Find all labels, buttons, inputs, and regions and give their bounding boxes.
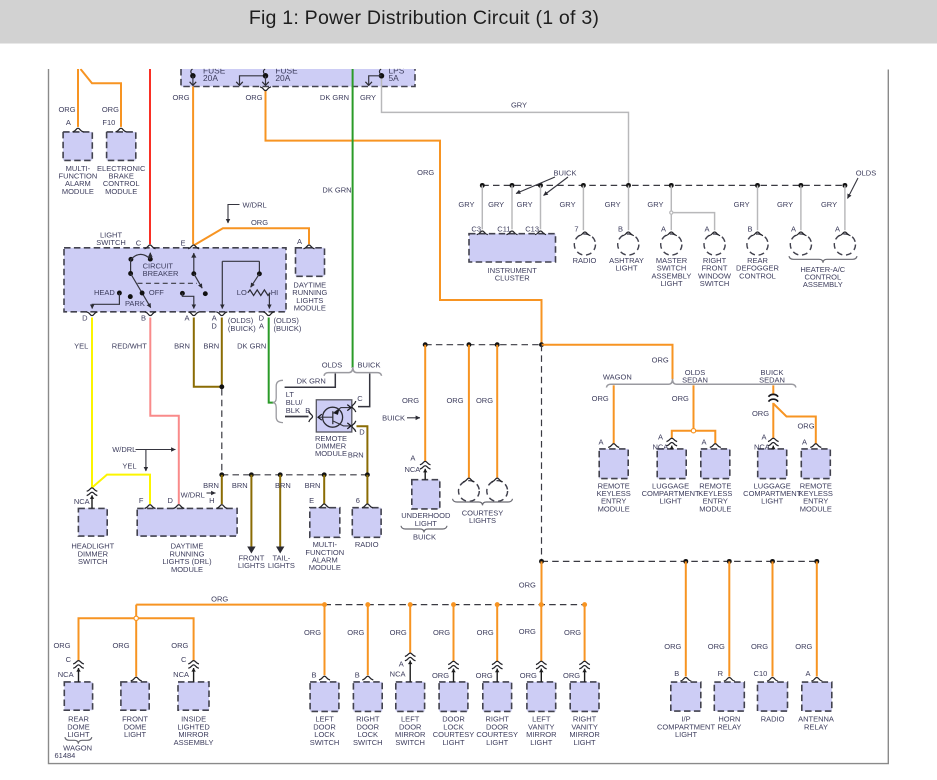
svg-text:D: D <box>167 496 173 505</box>
svg-text:ORG: ORG <box>446 396 463 405</box>
svg-text:CONTROL: CONTROL <box>739 271 776 280</box>
light switch contact dot OFF <box>140 291 145 296</box>
light switch circuit breaker <box>128 257 133 262</box>
svg-text:BREAKER: BREAKER <box>143 269 179 278</box>
svg-text:D: D <box>82 314 88 323</box>
svg-text:NCA: NCA <box>173 670 189 679</box>
svg-text:C3: C3 <box>471 224 481 233</box>
svg-text:6: 6 <box>356 496 360 505</box>
wire ORG to rear dome light <box>79 618 135 660</box>
wire RED/WHT light switch pin B to DRL module pin D <box>150 318 179 505</box>
daytime running lights module box (upper) <box>296 248 325 276</box>
light switch internal divider dashed <box>138 282 198 284</box>
svg-text:R: R <box>718 669 724 678</box>
svg-text:A: A <box>701 437 706 446</box>
antenna relay box <box>802 682 832 711</box>
wire ORG fuse 2 to junction at orange bus <box>266 91 542 345</box>
left door lock switch box <box>310 682 339 712</box>
remote dimmer module box <box>316 400 352 432</box>
BRN bus junction dots <box>219 472 224 477</box>
underhood light brace <box>401 526 447 533</box>
master switch assembly light circle <box>661 234 682 255</box>
svg-text:MODULE: MODULE <box>315 449 347 458</box>
DRL module pin H connector <box>216 505 227 509</box>
electronic brake control module box <box>107 132 136 161</box>
wire ORG break to remote keyless entry module (buick) <box>773 404 815 445</box>
svg-text:BRN: BRN <box>305 481 321 490</box>
svg-text:MODULE: MODULE <box>105 187 137 196</box>
svg-text:ORG: ORG <box>390 628 407 637</box>
junction dot BRN wires <box>219 384 224 389</box>
courtesy light 1 circle <box>459 481 480 502</box>
wire ORG to i/p compartment light <box>685 561 687 676</box>
DRL module pin F connector <box>145 505 156 509</box>
svg-text:B: B <box>674 669 679 678</box>
front dome light connector <box>131 677 142 681</box>
svg-text:RADIO: RADIO <box>761 715 785 724</box>
svg-text:A: A <box>802 437 807 446</box>
svg-text:MODULE: MODULE <box>294 304 326 313</box>
svg-text:GRY: GRY <box>511 100 527 109</box>
wire ORG olds junction to remote keyless entry module <box>696 431 716 444</box>
underhood light box <box>412 480 440 509</box>
svg-text:ORG: ORG <box>751 642 768 651</box>
svg-text:ORG: ORG <box>53 641 70 650</box>
svg-text:LIGHTS: LIGHTS <box>238 561 265 570</box>
svg-text:BRN: BRN <box>348 451 364 460</box>
fuse 3 LPS 5A symbol <box>379 73 385 79</box>
wire ORG brace to buick sedan break connector <box>772 385 774 393</box>
inside lighted mirror assembly box <box>178 682 209 710</box>
DRL module pin A connector (upper) <box>304 245 315 249</box>
svg-text:ORG: ORG <box>519 581 536 590</box>
light switch middle switch (pin E to pin A) <box>193 253 195 274</box>
svg-text:LIGHT: LIGHT <box>761 497 784 506</box>
wire GRY to heater-a/c control assembly pin A (right) <box>844 185 846 230</box>
svg-text:DK GRN: DK GRN <box>237 342 266 351</box>
remote dimmer pin B arrow chevron <box>318 414 322 420</box>
wire DK GRN light switch pin D/A to options brace <box>269 318 274 403</box>
svg-text:A: A <box>761 433 766 442</box>
horn relay box <box>714 682 744 711</box>
annotation BUICK arrow at underhood wire <box>407 417 420 419</box>
light switch pin E connector <box>188 245 199 249</box>
svg-text:E: E <box>180 239 185 248</box>
svg-text:MODULE: MODULE <box>598 504 630 513</box>
light switch wire HEAD contact to pin D <box>92 293 119 309</box>
svg-text:RED/WHT: RED/WHT <box>112 342 147 351</box>
wire YEL branch to DRL module pin F <box>92 475 150 505</box>
left door mirror switch connector NCA <box>405 653 416 656</box>
svg-text:ORG: ORG <box>708 642 725 651</box>
svg-text:LIGHTS: LIGHTS <box>268 561 295 570</box>
wire ORG to underhood light <box>424 345 426 462</box>
wire DK GRN option to OLDS side of dimmer brace <box>285 374 336 388</box>
wire ORG to door lock courtesy light <box>453 605 455 662</box>
svg-text:W/DRL: W/DRL <box>181 490 205 499</box>
wire ORG to right door courtesy light <box>496 605 498 662</box>
wire ORG to horn relay <box>728 561 730 676</box>
svg-text:NCA: NCA <box>390 670 406 679</box>
right front window switch circle <box>704 234 725 255</box>
svg-text:A: A <box>297 237 302 246</box>
DRL module pin D connector <box>173 505 184 509</box>
svg-text:ORG: ORG <box>245 93 262 102</box>
radio pin 6 connector <box>362 504 373 508</box>
wagon brace under rear dome light <box>65 737 92 744</box>
svg-text:BRN: BRN <box>203 342 219 351</box>
svg-text:CLUSTER: CLUSTER <box>495 274 531 283</box>
svg-text:B: B <box>141 314 146 323</box>
fuse block box (top, clipped) <box>181 69 415 87</box>
wire ORG to right vanity mirror light <box>584 605 586 662</box>
wire ORG to right door lock switch <box>367 605 369 676</box>
luggage compartment light (olds) connector NCA <box>667 438 678 441</box>
wire ORG light switch pin E to DRL module pin A <box>194 228 309 245</box>
wire BRN bus to radio pin 6 <box>366 475 368 504</box>
wire YEL light switch pin D to headlight dimmer switch <box>91 318 93 488</box>
annotation W/DRL (at DRL pin H) <box>207 492 216 494</box>
junction ring dome lights <box>134 616 138 620</box>
remote dimmer pin B connector <box>309 411 313 422</box>
svg-text:H: H <box>209 496 214 505</box>
wire ORG break to luggage compartment light (buick) <box>772 403 774 439</box>
annotation OLDS with arrow (GRY bus) <box>848 178 859 199</box>
buick sedan inline break connector <box>769 394 779 401</box>
svg-text:LIGHT: LIGHT <box>660 279 683 288</box>
svg-text:BLK: BLK <box>286 406 300 415</box>
svg-text:A: A <box>410 453 415 462</box>
underhood light connector NCA <box>420 461 431 464</box>
svg-text:ORG: ORG <box>476 396 493 405</box>
wire GRY to master switch assembly light pin A <box>670 185 672 230</box>
wire ORG to courtesy light 2 <box>496 345 498 478</box>
door lock courtesy light connector NCA <box>448 661 459 664</box>
svg-text:A: A <box>399 659 404 668</box>
remote dimmer transistor symbol <box>323 407 343 427</box>
svg-text:SWITCH: SWITCH <box>700 279 730 288</box>
svg-text:GRY: GRY <box>647 200 663 209</box>
wire ORG to left door mirror switch <box>409 605 411 654</box>
ashtray light circle <box>618 234 639 255</box>
svg-text:ORG: ORG <box>652 356 669 365</box>
svg-text:MODULE: MODULE <box>699 504 731 513</box>
svg-text:ORG: ORG <box>251 218 268 227</box>
wire ORG olds junction to luggage compartment light <box>672 431 692 439</box>
svg-text:A: A <box>66 118 71 127</box>
remote keyless entry module (olds) pin A connector <box>710 444 721 448</box>
svg-text:A: A <box>259 322 264 331</box>
wire ORG fuse 1 to light switch pin E <box>192 87 194 245</box>
remote dimmer pin D connector <box>352 421 356 432</box>
svg-text:DK GRN: DK GRN <box>297 376 326 385</box>
wire BRN remote dimmer pin D to BRN bus <box>357 426 368 475</box>
svg-text:BUICK: BUICK <box>358 361 381 370</box>
wire ORG brace to remote keyless entry module (wagon) <box>613 385 615 444</box>
wire ORG to left door lock switch <box>324 605 326 676</box>
right vanity mirror light connector NCA <box>579 661 590 664</box>
svg-text:20A: 20A <box>203 73 218 83</box>
i/p compartment light box <box>671 682 701 711</box>
svg-text:C10: C10 <box>754 669 768 678</box>
annotation W/DRL (middle) <box>136 449 176 451</box>
svg-text:A: A <box>598 437 603 446</box>
fuse1-fuse2 link wire <box>240 76 266 85</box>
headlight dimmer switch connector NCA <box>87 488 98 491</box>
svg-text:ORG: ORG <box>402 396 419 405</box>
remote keyless entry module box (buick sedan) <box>801 449 830 479</box>
svg-text:7: 7 <box>574 224 578 233</box>
light switch pin C connector <box>145 245 156 249</box>
svg-text:ORG: ORG <box>797 422 814 431</box>
svg-text:PARK: PARK <box>125 299 145 308</box>
luggage compartment light (buick) connector NCA <box>768 438 779 441</box>
radio circle <box>574 234 595 255</box>
svg-text:W/DRL: W/DRL <box>112 445 136 454</box>
ORG bus 2 dashed <box>325 604 585 606</box>
wire GRY to instrument cluster C11 <box>511 185 513 229</box>
instrument cluster box <box>469 234 556 262</box>
wire ORG bus1 to wagon/sedan options brace <box>542 345 673 379</box>
left door mirror switch box <box>396 682 425 712</box>
svg-text:NCA: NCA <box>404 465 420 474</box>
svg-text:C11: C11 <box>497 224 510 233</box>
svg-text:C13: C13 <box>525 224 539 233</box>
svg-text:ORG: ORG <box>520 671 537 680</box>
fuse 2 output connector cup <box>260 87 271 91</box>
svg-text:Fig 1: Power Distribution Circ: Fig 1: Power Distribution Circuit (1 of … <box>249 7 599 29</box>
junction ring on master switch wire <box>670 211 673 214</box>
rear dome light connector NCA <box>73 661 84 664</box>
wire GRY from LPS fuse to GRY bus <box>382 77 629 185</box>
ORG bus 1 dots <box>423 342 428 347</box>
svg-text:ASSEMBLY: ASSEMBLY <box>174 738 214 747</box>
svg-text:A: A <box>835 224 840 233</box>
heater-a/c brace <box>789 256 857 263</box>
svg-text:LIGHT: LIGHT <box>67 730 90 739</box>
svg-text:BRN: BRN <box>232 481 248 490</box>
wire ORG to left vanity mirror light <box>540 605 542 662</box>
svg-text:A: A <box>704 224 709 233</box>
svg-text:NCA: NCA <box>58 670 74 679</box>
light switch head/off/park switch blade <box>130 259 132 273</box>
wire GRY to ashtray light pin B <box>628 185 630 230</box>
remote dimmer pin C connector <box>352 401 356 412</box>
svg-text:LIGHT: LIGHT <box>124 730 147 739</box>
svg-text:(BUICK): (BUICK) <box>228 324 256 333</box>
svg-text:GRY: GRY <box>488 200 504 209</box>
svg-text:SEDAN: SEDAN <box>682 376 708 385</box>
courtesy light 2 circle <box>487 481 508 502</box>
luggage compartment light box (olds sedan) <box>657 449 686 479</box>
svg-text:YEL: YEL <box>122 462 136 471</box>
svg-text:GRY: GRY <box>517 200 533 209</box>
svg-text:B: B <box>311 671 316 680</box>
right vanity mirror light box <box>570 682 599 712</box>
svg-text:B: B <box>747 224 752 233</box>
title bar <box>0 0 937 44</box>
annotation W/DRL (upper) <box>228 205 240 224</box>
headlight dimmer switch box <box>78 508 107 536</box>
svg-text:SWITCH: SWITCH <box>310 738 340 747</box>
svg-text:ORG: ORG <box>304 628 321 637</box>
right door courtesy light connector NCA <box>492 661 503 664</box>
svg-text:OLDS: OLDS <box>856 168 876 177</box>
svg-text:OFF: OFF <box>149 288 164 297</box>
wire ORG to radio (bottom) <box>772 561 774 676</box>
right door lock switch box <box>353 682 382 712</box>
svg-text:GRY: GRY <box>821 200 837 209</box>
svg-text:C: C <box>66 655 72 664</box>
svg-text:BUICK: BUICK <box>413 533 436 542</box>
wire DK GRN from top to OLDS/BUICK brace <box>352 69 354 368</box>
svg-text:LIGHTS: LIGHTS <box>469 516 496 525</box>
svg-text:ORG: ORG <box>476 671 493 680</box>
multi-function alarm module pin E connector <box>319 504 330 508</box>
GRY bus dashed <box>482 184 845 186</box>
heater-a/c control assembly circles <box>790 234 811 255</box>
svg-text:RELAY: RELAY <box>717 722 741 731</box>
svg-text:ORG: ORG <box>102 105 119 114</box>
remote keyless entry module box (olds sedan) <box>701 449 730 479</box>
svg-text:ORG: ORG <box>664 642 681 651</box>
svg-text:ORG: ORG <box>172 93 189 102</box>
remote dimmer pin D arrow chevron <box>347 423 351 429</box>
svg-text:B: B <box>355 671 360 680</box>
door lock courtesy light box <box>439 682 468 712</box>
svg-text:ORG: ORG <box>564 628 581 637</box>
svg-text:LIGHT: LIGHT <box>415 519 438 528</box>
svg-text:ORG: ORG <box>477 628 494 637</box>
svg-text:A: A <box>658 433 663 442</box>
svg-text:A: A <box>184 314 189 323</box>
wire GRY to instrument cluster C3 <box>481 185 483 229</box>
wire GRY to radio pin 7 <box>582 185 584 230</box>
wire GRY branch to right front window switch pin A <box>673 213 714 231</box>
multi-function alarm module box (upper left) <box>63 132 92 161</box>
svg-text:C: C <box>181 655 187 664</box>
svg-text:A: A <box>805 669 810 678</box>
svg-text:ORG: ORG <box>563 671 580 680</box>
remote keyless entry module box (wagon) <box>599 449 628 479</box>
svg-text:ORG: ORG <box>417 168 434 177</box>
svg-text:NCA: NCA <box>74 497 90 506</box>
courtesy lights brace <box>453 499 513 506</box>
left vanity mirror light connector NCA <box>536 661 547 664</box>
svg-text:GRY: GRY <box>777 200 793 209</box>
svg-text:BRN: BRN <box>275 481 291 490</box>
svg-text:HEAD: HEAD <box>94 288 115 297</box>
wire ORG to front dome light <box>135 620 137 676</box>
svg-text:ORG: ORG <box>58 105 75 114</box>
dashed wire junction to BRN bus <box>221 389 223 475</box>
svg-text:ORG: ORG <box>672 394 689 403</box>
diagram frame <box>49 69 889 764</box>
svg-text:ASSEMBLY: ASSEMBLY <box>803 280 843 289</box>
GRY bus junction dots <box>480 183 485 188</box>
wire BUICK side of brace to remote dimmer pin C <box>358 374 370 407</box>
svg-text:LIGHT: LIGHT <box>615 264 638 273</box>
svg-text:A: A <box>661 224 666 233</box>
svg-text:GRY: GRY <box>458 200 474 209</box>
svg-text:NCA: NCA <box>652 442 668 451</box>
svg-text:MODULE: MODULE <box>800 504 832 513</box>
ORG bus 1b dots <box>539 559 544 564</box>
svg-text:BUICK: BUICK <box>554 168 577 177</box>
svg-text:ORG: ORG <box>592 394 609 403</box>
svg-text:SEDAN: SEDAN <box>759 376 785 385</box>
svg-text:NCA: NCA <box>754 442 770 451</box>
luggage compartment light box (buick sedan) <box>758 449 787 479</box>
svg-text:ORG: ORG <box>752 409 769 418</box>
left vanity mirror light box <box>527 682 556 712</box>
svg-text:RADIO: RADIO <box>573 256 597 265</box>
svg-text:DK GRN: DK GRN <box>322 186 351 195</box>
wire BRN light switch pin A to junction <box>194 318 222 387</box>
svg-text:B: B <box>618 224 623 233</box>
light switch bottom pin connectors <box>87 312 98 316</box>
svg-text:HI: HI <box>271 288 279 297</box>
radio relay-row box <box>758 682 788 711</box>
inside lighted mirror connector NCA <box>188 661 199 664</box>
svg-text:MODULE: MODULE <box>309 563 341 572</box>
wire BRN light switch pin A/D to junction <box>221 318 223 387</box>
wire GRY to heater-a/c control assembly pin A (left) <box>800 185 802 230</box>
multi-function alarm module pin A connector <box>73 128 84 132</box>
wire ORG bus1b down to bus2 <box>541 561 543 604</box>
remote keyless entry module (buick) pin A connector <box>810 444 821 448</box>
ORG bus 1b dashed <box>542 560 817 562</box>
svg-text:20A: 20A <box>275 73 290 83</box>
svg-text:LIGHT: LIGHT <box>675 730 698 739</box>
ORG bus 2 dots (orange) <box>322 602 327 607</box>
remote dimmer pin C arrow chevron <box>347 405 351 411</box>
ORG bus 1 dashed <box>425 344 541 346</box>
remote keyless entry module (wagon) pin A connector <box>608 444 619 448</box>
wire ORG to antenna relay <box>816 561 818 676</box>
svg-text:ORG: ORG <box>519 627 536 636</box>
svg-text:BRN: BRN <box>203 481 219 490</box>
svg-text:B: B <box>305 406 310 415</box>
svg-text:ORG: ORG <box>347 628 364 637</box>
light switch rheostat LO/HI <box>222 260 259 262</box>
svg-text:A: A <box>791 224 796 233</box>
wire ORG feed of bus 2 <box>136 604 325 606</box>
svg-text:C: C <box>136 239 142 248</box>
electronic brake module pin F10 connector <box>116 128 127 132</box>
wire BRN bus to tail lights <box>279 475 281 548</box>
fuse 2 FUSE 20A symbol <box>263 73 269 79</box>
right door courtesy light box <box>483 682 512 712</box>
fuse 1 FUSE 20A symbol <box>190 73 196 79</box>
light switch contact dot PARK <box>128 294 133 299</box>
svg-text:ORG: ORG <box>171 641 188 650</box>
svg-text:61484: 61484 <box>55 751 76 760</box>
svg-text:ORG: ORG <box>432 671 449 680</box>
svg-text:D: D <box>211 322 217 331</box>
svg-text:ORG: ORG <box>211 595 228 604</box>
svg-text:LO: LO <box>237 288 247 297</box>
svg-text:F10: F10 <box>102 118 115 127</box>
options brace OLDS/BUICK (left of remote dimmer) <box>273 380 283 422</box>
options brace WAGON/OLDS SEDAN/BUICK SEDAN <box>606 379 796 388</box>
wire ORG from top to electronic brake control module pin F10 <box>81 69 122 127</box>
wire RED from top to light switch pin C <box>149 69 151 244</box>
dashed link bus1 to bus1b <box>541 345 543 562</box>
svg-text:BRN: BRN <box>174 342 190 351</box>
svg-text:RELAY: RELAY <box>804 722 828 731</box>
svg-text:RADIO: RADIO <box>355 540 379 549</box>
